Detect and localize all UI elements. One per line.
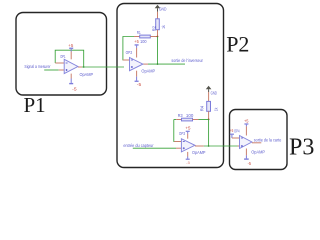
pin R2 bottom [157, 30, 159, 37]
pin OP3 output [195, 145, 204, 147]
svg-text:P1: P1 [24, 93, 46, 117]
pin OP1 - input [55, 62, 64, 64]
svg-text:OpAMP: OpAMP [80, 72, 94, 77]
op-amp OP3 [181, 139, 195, 152]
ground GND mid [206, 86, 212, 90]
wire signal input to OP1 + [44, 69, 59, 71]
svg-text:sortie de la carte: sortie de la carte [254, 137, 282, 142]
wire OP2 output [148, 63, 185, 65]
pin OP1 + input [59, 69, 64, 71]
pin OP4 output [252, 142, 261, 144]
junction OP1 output/feedback [83, 66, 85, 68]
power -5 OP3 [187, 157, 189, 159]
pin R2 top [157, 12, 159, 19]
pin OP2 V- [136, 71, 138, 77]
pin R4 top [208, 92, 210, 101]
op-amp OP1 [64, 59, 78, 73]
pin OP4 + input [238, 145, 240, 147]
junction OP3 output [208, 145, 210, 147]
svg-text:P2: P2 [226, 32, 249, 57]
op-amp OP4 [240, 136, 252, 149]
svg-text:+5: +5 [134, 39, 139, 44]
power -5 OP2 [136, 77, 138, 81]
pin OP3 V+ [187, 134, 189, 139]
svg-text:-5: -5 [72, 87, 77, 92]
svg-text:-5: -5 [248, 161, 252, 166]
svg-text:OpAMP: OpAMP [251, 149, 265, 154]
pin OP1 output [78, 66, 82, 68]
pin OP3 + input [176, 147, 181, 149]
svg-text:+5: +5 [185, 125, 191, 130]
pin OP2 output [143, 63, 148, 65]
junction R1/R2 [157, 36, 159, 38]
resistor R3 [174, 119, 176, 121]
wire junction down to OP3 output [208, 120, 210, 147]
ground GND top [155, 5, 161, 9]
svg-text:OpAMP: OpAMP [192, 150, 206, 155]
pin OP1 V+ [70, 52, 72, 60]
wire OP1 feedback loop [55, 50, 83, 67]
svg-text:sortie de l'inverseur: sortie de l'inverseur [171, 58, 203, 63]
pin OP2 V+ [136, 48, 138, 58]
pin R4 bottom [208, 111, 210, 119]
svg-text:OpAMP: OpAMP [141, 68, 155, 73]
svg-text:+5: +5 [68, 43, 74, 48]
svg-text:-5: -5 [137, 82, 142, 87]
wire R3 down to OP3 - input [174, 120, 176, 142]
resistor R4 [207, 101, 211, 111]
pin OP3 V- [187, 152, 189, 157]
power -5 OP1 [70, 79, 72, 83]
svg-text:Signal a mesurer: Signal a mesurer [24, 64, 51, 69]
svg-text:OP4: OP4 [234, 128, 240, 133]
svg-text:OP3: OP3 [179, 131, 185, 136]
svg-text:P3: P3 [289, 134, 314, 160]
resistor R1 [134, 36, 140, 38]
wire feedback top OP2 [123, 37, 134, 61]
wire OP3 output to OP4 + input [204, 145, 238, 147]
pin OP4 V+ [245, 126, 247, 135]
wire sensor input to OP3 + [133, 147, 176, 149]
svg-text:GND: GND [211, 91, 217, 96]
sheet box P1 [16, 13, 107, 96]
sheet box P3 [230, 110, 288, 170]
pin OP4 - input [232, 137, 240, 139]
pin OP4 V- [245, 149, 247, 156]
svg-text:R3: R3 [178, 113, 183, 118]
pin OP1 V- [70, 74, 72, 79]
svg-text:R4: R4 [199, 105, 204, 111]
wire OP1 output to OP2 + input [82, 66, 124, 68]
svg-text:OP2: OP2 [126, 50, 133, 55]
wire junction down to output [157, 37, 159, 65]
svg-text:OP1: OP1 [60, 54, 66, 59]
power -5 OP4 [245, 155, 247, 158]
pin OP3 - input [174, 141, 181, 143]
svg-text:R1: R1 [137, 30, 141, 35]
junction R3/R4 [208, 119, 210, 121]
svg-text:R2: R2 [151, 25, 156, 31]
resistor R2 [156, 19, 160, 30]
junction output/feedback OP2 [157, 63, 159, 65]
svg-text:+5: +5 [244, 119, 249, 124]
svg-text:entrée du capteur: entrée du capteur [123, 143, 154, 148]
sheet box P2 [117, 4, 224, 168]
pin OP2 - input [123, 59, 130, 61]
svg-text:GND: GND [159, 7, 167, 12]
op-amp OP2 [130, 58, 143, 71]
svg-text:100: 100 [140, 39, 147, 44]
svg-text:-5: -5 [186, 161, 190, 165]
svg-text:100: 100 [186, 113, 194, 118]
